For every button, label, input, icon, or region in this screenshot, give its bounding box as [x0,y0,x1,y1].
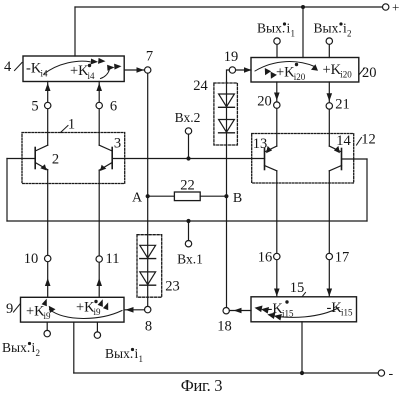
wire bottom negative rail [74,372,378,374]
svg-text:Фиг. 3: Фиг. 3 [181,376,223,395]
svg-text:Вых.: Вых. [2,340,30,355]
wire box 20 down to terminal 20 [276,82,278,102]
wire lower feedback rail [7,220,367,222]
svg-text:B: B [233,191,242,206]
diode VD23b [140,272,156,285]
label 15 [290,280,306,297]
svg-text:23: 23 [165,279,180,295]
svg-text:20: 20 [257,94,272,110]
wire from top rail down to box 20 [302,7,304,58]
node junction on negative rail [300,371,304,375]
wire top supply rail [75,6,383,8]
svg-text:-K: -K [26,61,42,77]
svg-text:+K: +K [276,65,295,81]
wire node 8 into box 9 [124,309,144,311]
label +Ki4* [70,63,95,81]
terminal 8 [145,306,151,312]
arrowhead down into box 15 (right) [327,289,333,297]
wire from top rail down to box 4 [74,7,76,56]
svg-text:20: 20 [362,65,377,81]
diode VD23a [140,245,156,258]
svg-text:i20: i20 [340,70,352,80]
wire resistor 22 to node B [200,195,226,197]
svg-text:Вх.1: Вх.1 [177,252,203,267]
diode VD24b [219,120,235,133]
terminal 19 [229,67,235,73]
wire node A to resistor 22 [148,195,175,197]
svg-text:10: 10 [24,251,39,267]
svg-text:12: 12 [361,132,376,148]
svg-text:+K: +K [76,300,95,316]
terminal 7 [145,67,151,73]
current-gain block U20 (box 20) [251,58,359,83]
wire node 19 to diode chain corner [227,70,230,82]
arrowhead into box 20 left side [244,67,252,73]
arrowhead toward terminal 18 [234,308,242,314]
svg-text:18: 18 [217,319,232,335]
arrowhead up into box 4 (right) [96,83,102,91]
wire base of Q2 to left feedback riser [7,158,35,160]
diode VD24a [219,94,235,107]
svg-text:+K: +K [70,63,89,79]
svg-text:+K: +K [323,62,342,78]
svg-text:21: 21 [335,97,350,113]
svg-text:1: 1 [68,117,75,133]
terminal 18 [223,308,229,314]
wire terminal 21 down to Q14 emitter [328,109,330,146]
arrowhead into node 7 [137,67,145,73]
arrowhead up toward terminal 11 [96,278,102,286]
output stem to Вых i2 terminal (bottom left) [46,322,48,330]
terminal Вых i2 (top) [326,38,332,44]
svg-text:11: 11 [106,251,120,267]
wire Q2 emitter down to terminal 10 and box 9 [47,170,49,298]
arrowhead down into box 15 (left) [274,289,280,297]
current-gain block U15 (box 15) [251,297,357,322]
terminal + (plus supply) [383,4,389,10]
wire terminal 20 down to Q13 emitter [276,108,278,146]
terminal 6 [96,102,102,108]
wire node 7 down through node A and diodes 23 to node 8 [147,73,149,306]
label +Ki9 [26,304,51,322]
wire base of Q14 [342,158,368,160]
label 4 [4,59,22,75]
svg-text:-: - [389,367,394,382]
node B junction [224,194,228,198]
svg-text:Вх.2: Вх.2 [175,110,201,125]
label Вых.*i2 (bottom) [2,340,40,358]
svg-text:-K: -K [327,300,343,316]
svg-text:24: 24 [193,78,208,94]
label Вых.*i1 (top) [257,21,295,39]
transistor Q2 [35,145,59,170]
wire Q2 collector up to terminal 5 and box 4 [47,82,49,146]
terminal 21 [326,103,332,109]
label -Ki15 [327,300,354,318]
svg-text:Вых.: Вых. [314,21,342,36]
svg-text:i15: i15 [341,308,353,318]
svg-text:1: 1 [291,29,296,39]
resistor R22 [174,192,200,201]
wire box 20 down to terminal 21 [328,82,330,103]
svg-text:8: 8 [145,319,152,335]
wire Q13 collector down to terminal 16 and box 15 [276,171,278,297]
arrowhead down toward terminal 20 [274,93,280,101]
svg-text:3: 3 [114,136,121,152]
terminal Вх.2 [175,110,201,161]
svg-text:1: 1 [139,354,144,364]
wire node 19 into box 20 [236,69,251,71]
current-gain block U9 (box 9) [21,297,125,322]
wire diode chain 24 down through node B to terminal 18 [226,82,228,308]
terminal Вых i2 (bottom) [44,330,50,336]
label -Ki15* [268,300,295,318]
node A junction [146,194,150,198]
svg-text:i4: i4 [41,69,49,79]
svg-text:2: 2 [52,152,59,168]
transistor Q14 [329,133,351,171]
arrowhead into box 9 right side [126,307,134,313]
terminal - (minus supply) [378,370,384,376]
dashed box 12 (output pair) [252,132,376,184]
svg-text:22: 22 [180,178,195,194]
terminal 17 [326,253,332,259]
label 20 (box) [359,65,377,81]
label Вых.*i2 (top) [314,21,352,39]
transistor Q13 [253,136,277,171]
dashed box 23 (diode chain) [137,235,162,298]
svg-text:7: 7 [146,49,153,65]
svg-text:6: 6 [110,99,117,115]
wire box 15 down to negative rail [301,322,303,373]
svg-text:i20: i20 [294,72,306,82]
transistor Q3 [99,136,121,172]
wire Q14 collector down to terminal 17 and box 15 [328,171,330,297]
label -Ki4 [26,61,48,79]
wire box 4 output to node 7 [124,69,144,71]
svg-text:+: + [392,0,399,15]
label +Ki9* [76,300,101,318]
svg-text:i9: i9 [94,307,102,317]
svg-text:Вых.: Вых. [257,21,285,36]
wire Q3 emitter down to terminal 11 and box 9 [98,170,100,297]
svg-text:5: 5 [31,99,38,115]
arrowhead up toward terminal 10 [45,278,51,286]
svg-text:16: 16 [258,250,273,266]
terminal 20 [274,102,280,108]
svg-text:+K: +K [26,304,45,320]
wire Q3 collector up to terminal 6 and box 4 [98,82,100,146]
wire box 9 down to negative rail [73,322,75,373]
terminal Вых i1 (top) [274,38,280,44]
svg-text:19: 19 [224,49,239,65]
arrowhead up into box 4 (left) [45,83,51,91]
svg-text:i4: i4 [88,71,96,81]
terminal 5 [45,102,51,108]
label 9 [6,301,20,317]
svg-text:A: A [132,191,143,206]
label +Ki20 [323,62,353,80]
terminal Вх.1 [177,219,203,267]
svg-text:4: 4 [4,59,12,75]
dashed box 1 (input differential pair) [22,117,125,184]
svg-text:13: 13 [253,136,268,152]
svg-text:2: 2 [347,29,352,39]
svg-text:15: 15 [290,280,305,296]
terminal Вых i1 (bottom) [94,332,100,338]
svg-text:i9: i9 [44,311,52,321]
output stem to Вых i1 terminal (bottom) [96,322,98,332]
dashed box 24 (diode chain) [214,83,238,145]
terminal Вых i1 (top) stem [276,44,278,57]
label +Ki20* [276,63,306,82]
terminal 10 [45,255,51,261]
wire left feedback riser [6,159,8,222]
terminal 11 [96,256,102,262]
label Вых.*i1 (bottom) [105,346,143,364]
node junction on top rail to box 20 [301,5,305,9]
svg-text:17: 17 [335,250,350,266]
terminal Вых i2 (top) stem [328,44,330,57]
svg-text:i15: i15 [282,309,294,319]
terminal 16 [274,253,280,259]
svg-text:9: 9 [6,301,13,317]
base line wire (bases of Q3 and Q13, input Вх.2 tap) [112,158,264,160]
arrowhead down toward terminal 21 [327,93,333,101]
wire box 15 out to terminal 18 [229,310,251,312]
svg-text:Вых.: Вых. [105,346,133,361]
current-gain block U4 (box 4) [23,56,124,82]
wire right feedback riser (base Q14) [366,159,368,221]
svg-text:-K: -K [268,301,284,317]
svg-text:2: 2 [36,348,41,358]
svg-text:14: 14 [336,133,351,149]
